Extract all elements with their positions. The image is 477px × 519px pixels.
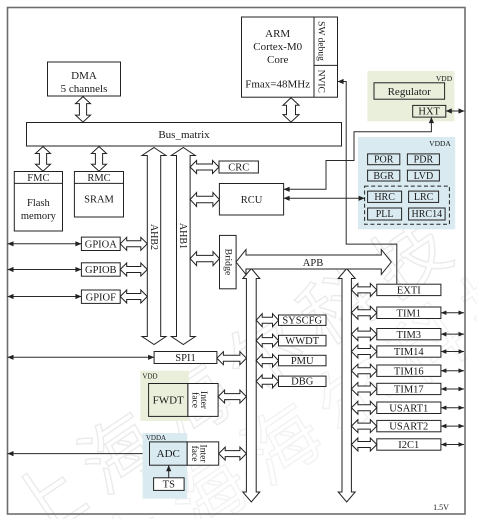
arrow right bus to TIM17	[351, 382, 376, 395]
svg-text:NVIC: NVIC	[316, 70, 326, 93]
svg-text:Bus_matrix: Bus_matrix	[158, 129, 210, 141]
arrow right bus to TIM1	[351, 306, 376, 319]
svg-text:PLL: PLL	[376, 209, 394, 220]
wire GPIOB to port pins	[8, 269, 82, 271]
svg-text:PMU: PMU	[291, 356, 314, 367]
block TS	[154, 478, 185, 491]
svg-text:EXTI: EXTI	[397, 286, 421, 297]
svg-text:Fmax=48MHz: Fmax=48MHz	[245, 79, 310, 91]
block TIM14	[377, 346, 441, 357]
block GPIOB	[81, 263, 120, 276]
block FWDT interface	[188, 384, 218, 417]
svg-text:RCU: RCU	[241, 195, 263, 206]
block LVD	[407, 170, 439, 181]
block USART1	[377, 402, 441, 414]
block TIM3	[377, 329, 441, 340]
svg-text:TIM16: TIM16	[394, 366, 424, 377]
block GPIOA	[81, 237, 120, 250]
svg-text:SPI1: SPI1	[175, 353, 195, 364]
arrow right bus to USART1	[351, 401, 376, 414]
block PDR	[407, 154, 439, 165]
svg-text:PDR: PDR	[414, 155, 434, 166]
arrow right bus to TIM16	[351, 364, 376, 377]
svg-text:ARM: ARM	[265, 28, 290, 40]
wire TIM14 to pins	[441, 351, 464, 353]
wire TS to ADC	[168, 465, 170, 478]
wire USART1 to pins	[441, 407, 464, 409]
arrow Core to Bus_matrix	[283, 98, 299, 122]
block CRC	[219, 161, 258, 173]
block Bridge	[220, 235, 237, 288]
wire TIM1 to pins	[441, 312, 464, 314]
block DMA 5 channels	[48, 62, 121, 96]
block ADC	[150, 442, 188, 465]
watermark	[0, 196, 477, 519]
svg-text:Regulator: Regulator	[388, 86, 432, 98]
block ARM Cortex-M0 Core	[242, 17, 338, 97]
block POR	[368, 154, 400, 165]
svg-text:TIM3: TIM3	[397, 330, 422, 341]
svg-text:AHB2: AHB2	[148, 224, 159, 250]
wire TIM17 to pins	[441, 388, 464, 390]
svg-text:TS: TS	[163, 480, 175, 491]
arrow GPIOB to AHB2	[120, 263, 147, 276]
block LRC	[409, 191, 439, 202]
wire TIM16 to pins	[441, 370, 464, 372]
arrow right bus to TIM3	[351, 328, 376, 341]
svg-text:LRC: LRC	[414, 192, 434, 203]
arrow AHB1 to CRC	[190, 161, 219, 174]
wire GPIOA to port pins	[8, 243, 82, 245]
wire USART2 to pins	[441, 425, 464, 427]
VDDA power domain region ADC (blue)	[143, 433, 188, 499]
wire EXTI to NVIC	[338, 82, 397, 285]
svg-text:TIM1: TIM1	[397, 308, 422, 319]
bus AHB1 vertical	[171, 148, 195, 345]
svg-text:POR: POR	[374, 155, 394, 166]
svg-text:VDDA: VDDA	[146, 434, 166, 442]
arrow Bus_matrix to RMC	[92, 147, 107, 172]
svg-text:LVD: LVD	[414, 171, 434, 182]
svg-text:1.5V: 1.5V	[433, 503, 449, 512]
block ADC interface	[187, 442, 219, 465]
svg-text:DMA: DMA	[71, 70, 97, 82]
arrow right bus to USART2	[351, 420, 376, 433]
svg-text:GPIOB: GPIOB	[85, 265, 117, 276]
block HRC	[368, 191, 402, 202]
arrow GPIOF to AHB2	[120, 290, 147, 303]
arrow left bus to DBG	[256, 375, 278, 388]
block SPI1	[154, 352, 217, 364]
block TIM1	[377, 307, 441, 319]
svg-text:Interface: Interface	[189, 445, 208, 464]
svg-text:HXT: HXT	[418, 107, 440, 118]
block GPIOF	[81, 290, 120, 303]
block TIM16	[377, 365, 441, 376]
wire ADC input from pins	[8, 453, 150, 455]
VDD power domain region (green)	[367, 71, 454, 121]
arrow left bus to ADC interface	[219, 447, 247, 460]
block I2C1	[377, 439, 441, 450]
svg-text:TIM17: TIM17	[394, 385, 424, 396]
svg-text:BGR: BGR	[373, 171, 394, 182]
block BGR	[368, 170, 400, 181]
arrow right bus to EXTI	[351, 283, 376, 296]
arrow left bus to WWDT	[256, 334, 278, 347]
VDD power domain region FWDT (green)	[140, 371, 189, 421]
arrow left bus to SYSCFG	[256, 314, 278, 327]
svg-text:I2C1: I2C1	[398, 440, 419, 451]
svg-text:HRC: HRC	[374, 192, 395, 203]
wire HXT to RCU	[284, 117, 432, 189]
svg-text:HRC14: HRC14	[412, 209, 443, 220]
svg-text:CRC: CRC	[228, 162, 249, 173]
arrow right bus to I2C1	[351, 438, 376, 451]
wire RCU to HRC clock group	[284, 197, 365, 199]
svg-text:Bridge: Bridge	[222, 249, 233, 276]
arrow AHB1 to Bridge	[190, 252, 219, 266]
block FWDT	[149, 384, 188, 417]
svg-text:AHB1: AHB1	[177, 223, 188, 249]
svg-text:VDDA: VDDA	[429, 139, 451, 148]
svg-text:ADC: ADC	[157, 448, 180, 460]
block USART2	[377, 420, 441, 431]
svg-text:SRAM: SRAM	[84, 195, 114, 206]
svg-text:VDD: VDD	[142, 373, 157, 381]
block WWDT	[279, 335, 327, 346]
wire TIM3 to pins	[441, 333, 464, 335]
svg-text:SW debug: SW debug	[316, 21, 326, 61]
block HRC14	[409, 208, 446, 220]
svg-text:Interface: Interface	[189, 391, 208, 410]
arrow left bus to PMU	[256, 354, 278, 367]
svg-text:GPIOF: GPIOF	[86, 292, 117, 303]
svg-text:Core: Core	[267, 54, 289, 66]
block HXT	[413, 105, 446, 117]
bus Bus_matrix	[27, 123, 342, 147]
svg-text:Cortex-M0: Cortex-M0	[253, 41, 302, 53]
block FMC / Flash memory	[14, 172, 62, 232]
block SYSCFG	[279, 315, 327, 325]
block EXTI	[377, 284, 441, 295]
arrow AHB1 to RCU	[190, 193, 219, 207]
svg-text:RMC: RMC	[87, 173, 110, 184]
svg-text:WWDT: WWDT	[285, 336, 319, 347]
arrow left bus to SPI1	[217, 352, 247, 365]
svg-text:USART2: USART2	[389, 422, 428, 433]
svg-text:VDD: VDD	[436, 74, 453, 83]
block RMC / SRAM	[74, 172, 123, 218]
arrow GPIOA to AHB2	[120, 237, 147, 250]
bus APB branch right vertical	[338, 269, 355, 503]
wire SPI1 to pins	[8, 356, 155, 358]
block RCU	[219, 184, 283, 216]
wire I2C1 to pins	[441, 444, 464, 446]
wire GPIOF to port pins	[8, 296, 82, 298]
bus AHB2 vertical	[142, 148, 166, 345]
arrow right bus to TIM14	[351, 345, 376, 358]
svg-text:memory: memory	[21, 211, 57, 222]
bus APB branch left vertical	[243, 269, 260, 503]
svg-text:GPIOA: GPIOA	[85, 239, 118, 250]
block PLL	[368, 208, 402, 220]
svg-text:Flash: Flash	[27, 198, 51, 209]
block TIM17	[377, 383, 441, 394]
svg-text:TIM14: TIM14	[394, 347, 424, 358]
wire HXT to crystal pins	[446, 110, 465, 112]
VDDA power domain region (blue)	[358, 137, 455, 229]
bus APB horizontal	[236, 250, 391, 275]
svg-text:SYSCFG: SYSCFG	[282, 315, 322, 326]
dashed clock group box	[365, 186, 450, 224]
block PMU	[279, 355, 327, 366]
block DBG	[279, 376, 327, 386]
svg-text:APB: APB	[303, 258, 323, 269]
arrow DMA to Bus_matrix	[76, 97, 91, 123]
svg-text:FWDT: FWDT	[153, 395, 184, 407]
svg-text:DBG: DBG	[291, 377, 314, 388]
svg-text:USART1: USART1	[389, 403, 428, 414]
arrow left bus to FWDT interface	[218, 390, 246, 403]
svg-text:FMC: FMC	[27, 173, 49, 184]
block Regulator	[374, 83, 445, 99]
svg-text:5 channels: 5 channels	[61, 83, 108, 95]
arrow Bus_matrix to FMC	[36, 147, 51, 172]
